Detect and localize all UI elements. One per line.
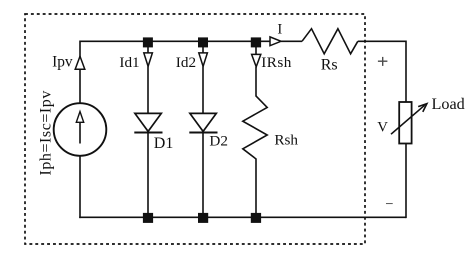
svg-text:−: −	[385, 197, 393, 213]
wire node to Id1 arrow	[147, 46, 149, 54]
right branch wire (load), behind load box	[405, 41, 407, 219]
bottom wire	[79, 216, 406, 218]
dashed boundary box of PV cell model	[25, 14, 365, 244]
node: top of Rsh branch	[251, 37, 261, 47]
top wire from source corner to I arrow	[80, 40, 270, 42]
svg-text:Id2: Id2	[176, 54, 196, 71]
current arrow IRsh (open triangle down)	[252, 54, 261, 66]
wire node to IRsh arrow	[255, 46, 257, 55]
wire IRsh arrow to Rsh resistor	[255, 67, 257, 96]
wire from Ipv arrow to current source	[79, 69, 81, 104]
current arrow Id1 (open triangle down)	[144, 53, 153, 67]
diode D1 triangle	[135, 113, 161, 131]
svg-text:V: V	[377, 120, 388, 136]
label +	[378, 57, 388, 66]
svg-text:D1: D1	[154, 135, 174, 152]
svg-text:Ipv: Ipv	[52, 53, 73, 70]
diode D2 cathode bar	[189, 132, 217, 134]
node: top of D1 branch	[143, 37, 153, 47]
load box (variable resistor)	[399, 102, 411, 144]
left branch wire above Ipv arrow	[79, 41, 81, 58]
current source circle Iph	[54, 103, 107, 156]
wire from I arrow to Rs	[281, 40, 302, 42]
svg-text:Rsh: Rsh	[274, 132, 298, 149]
diode D2 triangle	[190, 113, 216, 131]
wire Id2 arrow to diode D2	[202, 66, 204, 114]
svg-text:Iph=Isc=Ipv: Iph=Isc=Ipv	[38, 90, 55, 175]
current arrow I (open triangle)	[270, 37, 281, 46]
load arrow diagonal line	[391, 105, 425, 134]
svg-text:D2: D2	[209, 133, 228, 150]
current arrow Id2 (open triangle down)	[199, 53, 208, 67]
wire Rsh to bottom node	[255, 158, 257, 218]
svg-text:I: I	[277, 22, 282, 38]
svg-text:IRsh: IRsh	[261, 54, 292, 71]
wire from Rs to load branch corner	[358, 40, 406, 42]
wire Id1 arrow to diode D1	[147, 66, 149, 114]
node: bottom of D1 branch	[143, 213, 153, 223]
resistor Rs (series resistance)	[302, 29, 358, 54]
wire D2 to bottom node	[202, 133, 204, 219]
node: bottom of D2 branch	[198, 213, 208, 223]
svg-text:Load: Load	[432, 95, 465, 113]
current arrow Ipv (open triangle up)	[75, 56, 85, 69]
wire from current source to bottom wire	[79, 156, 81, 218]
node: bottom of Rsh branch	[251, 213, 261, 223]
wire D1 to bottom node	[147, 133, 149, 219]
resistor Rsh (shunt resistance)	[243, 96, 267, 159]
diode D1 cathode bar	[134, 132, 162, 134]
node: top of D2 branch	[198, 37, 208, 47]
svg-text:Rs: Rs	[321, 57, 338, 74]
current source arrow (inside circle)	[79, 122, 81, 143]
svg-text:Id1: Id1	[119, 54, 139, 71]
wire node to Id2 arrow	[202, 46, 204, 54]
load arrowhead	[418, 104, 427, 112]
